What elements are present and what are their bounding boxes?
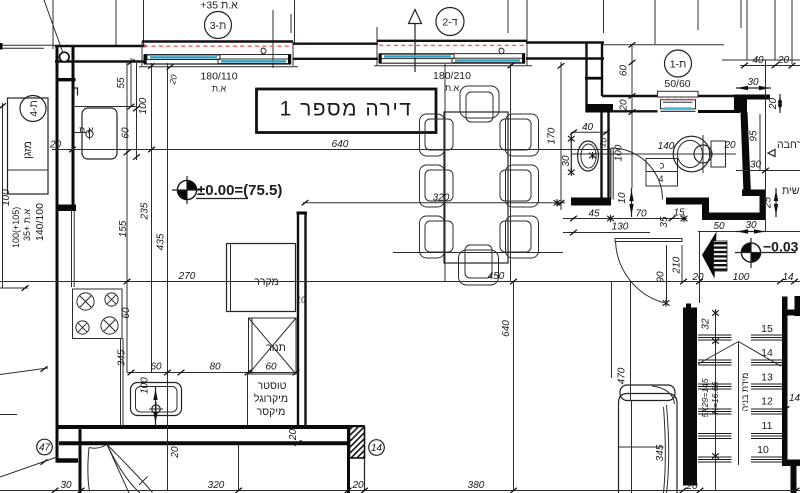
svg-text:4: 4 <box>658 174 663 184</box>
stair tread 15 <box>698 335 783 340</box>
dim 100 entry <box>733 272 750 283</box>
chair south <box>459 245 499 285</box>
svg-text:450: 450 <box>488 271 505 282</box>
svg-text:25: 25 <box>763 197 774 210</box>
dim line y65 right <box>740 63 800 68</box>
svg-text:235: 235 <box>140 202 151 220</box>
svg-text:מזגן: מזגן <box>22 141 34 159</box>
dim 30 bath sink vertical <box>561 135 575 176</box>
svg-text:32: 32 <box>701 318 712 330</box>
dim 100 bath door <box>614 144 625 161</box>
wall west crossbar lower <box>56 205 77 212</box>
svg-text:70: 70 <box>635 209 647 220</box>
svg-text:20: 20 <box>768 98 779 111</box>
grid line vertical x527 <box>526 0 528 44</box>
svg-text:140/100: 140/100 <box>34 203 46 241</box>
balcony door swing lines <box>107 445 153 493</box>
window W2 180/210 <box>374 41 532 68</box>
bottom dim line y490 <box>0 488 800 493</box>
dim 95 rotated <box>749 114 761 171</box>
dim line y149 with 640 <box>52 139 610 152</box>
dim line y202 with 320 <box>302 193 565 207</box>
stair label 5X29 <box>700 378 720 417</box>
svg-text:95: 95 <box>749 130 760 142</box>
stair tread 12 <box>698 409 783 414</box>
bath sink basin <box>578 141 599 171</box>
toilet <box>673 135 725 173</box>
grid line vertical x116 <box>115 0 117 46</box>
svg-text:180/110: 180/110 <box>200 71 237 83</box>
svg-text:130: 130 <box>612 222 629 233</box>
label 140/100 <box>34 203 46 241</box>
dim 10 bath west <box>597 137 609 148</box>
chair west 3 <box>420 216 454 258</box>
svg-text:20: 20 <box>723 140 736 151</box>
dim 470 rotated <box>612 282 628 384</box>
svg-text:±0.00=(75.5): ±0.00=(75.5) <box>197 182 282 199</box>
wall bath south step <box>702 204 709 214</box>
dim line y60 right <box>722 59 800 61</box>
svg-text:90: 90 <box>656 271 667 283</box>
svg-text:+35 א.ת: +35 א.ת <box>200 0 238 12</box>
dim 70 <box>635 209 647 220</box>
svg-text:180/210: 180/210 <box>433 70 471 82</box>
svg-text:320: 320 <box>208 480 225 491</box>
bubble 47 <box>37 439 53 455</box>
label appliances <box>254 380 288 418</box>
svg-text:40: 40 <box>752 55 764 66</box>
dim 55 <box>116 77 127 89</box>
dim 450 <box>488 271 505 282</box>
vertical dim x630 <box>630 282 632 401</box>
dim 25 bold right <box>763 188 779 217</box>
dim 14 stair <box>783 393 800 412</box>
svg-text:10: 10 <box>597 137 609 148</box>
grid line vertical x603 <box>603 0 605 33</box>
window W1 180/110 <box>139 42 298 70</box>
stair tread 10 <box>698 457 783 462</box>
vertical dim x632 <box>619 45 636 188</box>
stair dim line 32 <box>701 309 719 490</box>
chair east 1 <box>500 114 539 156</box>
diagonal bottom-left <box>0 457 57 477</box>
svg-text:100: 100 <box>140 377 151 394</box>
vertical dim x131 <box>75 58 136 109</box>
wall kitchen partition <box>297 212 308 426</box>
svg-text:140: 140 <box>658 141 675 152</box>
stair tread 14 <box>698 360 783 365</box>
top-left horizontal line y46 <box>0 43 55 50</box>
wall west crossbar upper <box>56 78 76 81</box>
sofa body <box>619 394 678 493</box>
grid line vertical x53 <box>52 0 54 49</box>
label 100 left edge <box>1 189 12 206</box>
grid line vertical x792 <box>791 0 793 64</box>
dim line y252 <box>393 252 563 254</box>
svg-text:80: 80 <box>209 362 221 373</box>
dim 100 left <box>138 97 149 114</box>
vertical dim x238 <box>238 445 240 491</box>
svg-text:345: 345 <box>655 444 666 461</box>
svg-text:10: 10 <box>617 192 628 204</box>
kitchen tall cabinet front lines <box>72 211 75 287</box>
svg-text:640: 640 <box>332 139 349 150</box>
dim line y154 bath <box>571 153 736 155</box>
dim 40 top right <box>752 55 764 66</box>
dining table <box>444 112 508 263</box>
svg-text:3-ת: 3-ת <box>210 20 227 32</box>
svg-text:345: 345 <box>117 349 128 366</box>
dim 345 sofa <box>655 444 666 461</box>
vertical dim x127 <box>124 63 131 373</box>
svg-text:מיקסר: מיקסר <box>257 406 286 418</box>
line y414 left <box>0 414 17 416</box>
dim 210 rotated <box>672 245 683 282</box>
svg-text:13: 13 <box>761 372 773 384</box>
svg-text:20: 20 <box>777 55 790 66</box>
svg-text:14: 14 <box>371 443 383 454</box>
svg-text:47: 47 <box>39 443 51 454</box>
svg-text:30: 30 <box>747 77 759 88</box>
dim 20 bath east <box>723 140 736 151</box>
benchmark level 0.00 <box>172 176 282 204</box>
dim 15 <box>673 208 685 219</box>
vertical dim x513 with 640 <box>501 282 514 491</box>
dim 30 bold top right <box>736 77 771 90</box>
kitchen counter edge <box>121 339 124 426</box>
fixture recessed unit top-left <box>82 108 117 159</box>
bubble 1-T <box>665 50 692 77</box>
svg-text:20: 20 <box>351 480 364 491</box>
dim 20 kitchen wall <box>49 140 76 153</box>
svg-text:כ: כ <box>660 161 665 171</box>
svg-text:10: 10 <box>296 295 306 305</box>
wall NE corner vertical <box>585 43 603 113</box>
grid line vertical x741 <box>740 0 742 28</box>
wall bath SE vertical <box>760 196 767 214</box>
dim 30 bold lower <box>736 220 766 234</box>
sofa edge curves <box>664 405 669 493</box>
svg-text:30: 30 <box>745 220 757 231</box>
benchmark level -0.03 <box>735 238 799 268</box>
dim 155 <box>118 220 129 237</box>
wall east poche slanted <box>741 112 752 194</box>
vertical dim x561 with 170 <box>547 62 565 210</box>
dim 10 entry <box>617 188 634 217</box>
sink bold dim <box>153 387 157 425</box>
svg-text:40: 40 <box>582 122 594 133</box>
label A.T +35 <box>22 209 32 241</box>
label 100+105 <box>11 207 21 248</box>
svg-text:א.ת: א.ת <box>212 84 227 94</box>
line y293 left <box>0 285 28 290</box>
svg-text:מיקרוגל: מיקרוגל <box>254 393 288 405</box>
label 50/60 <box>664 78 690 90</box>
dim 50 <box>698 221 800 232</box>
label mashit <box>782 185 800 197</box>
wall bath south w2 <box>702 213 766 221</box>
symbol vent A.T. <box>74 125 94 140</box>
line y170 right <box>736 170 800 172</box>
svg-text:100: 100 <box>138 97 149 114</box>
svg-text:15: 15 <box>673 208 685 219</box>
dim 40 bath sink <box>570 122 610 135</box>
bath cabinet <box>646 159 678 187</box>
dim 14 right <box>777 272 798 284</box>
title box apartment 1 <box>257 89 437 133</box>
svg-text:2-ד: 2-ד <box>442 17 457 29</box>
stair arrow head <box>702 232 717 279</box>
bubble 4-T <box>20 96 46 122</box>
vertical dim x136 <box>133 63 140 160</box>
cabinet step corner <box>74 88 78 96</box>
grid line vertical x291 <box>290 14 292 33</box>
svg-text:14: 14 <box>789 393 800 404</box>
stove cooktop <box>73 289 123 339</box>
grid line vertical x377 <box>376 27 378 44</box>
dim 320 bottom <box>208 480 225 491</box>
dim 345 kitchen <box>117 349 128 366</box>
stair numbers <box>757 323 773 456</box>
svg-text:1-ת: 1-ת <box>670 59 687 71</box>
wall bath north band east <box>698 96 740 112</box>
dim 20 at window1 sill <box>167 73 179 86</box>
sofa back cushion <box>620 385 675 404</box>
wall NE black corner <box>734 95 747 113</box>
svg-text:הרחבה: הרחבה <box>777 139 800 151</box>
grid line vertical x143 <box>143 0 145 46</box>
kitchen sink <box>131 383 182 417</box>
dim 20 bottom <box>351 480 364 491</box>
dim 20 bottom wall <box>288 429 301 446</box>
svg-text:270: 270 <box>178 271 196 282</box>
svg-text:60: 60 <box>121 127 132 139</box>
dim 380 bottom <box>468 480 485 491</box>
wall west outer line <box>56 46 59 462</box>
vertical dim x445 <box>444 64 446 282</box>
dim 60 left <box>121 127 132 139</box>
dim line y372 kitchen <box>127 370 299 375</box>
svg-text:12: 12 <box>761 396 773 408</box>
svg-text:155: 155 <box>118 220 129 237</box>
svg-text:תנור: תנור <box>266 342 286 354</box>
grid line vertical x775 <box>774 0 776 60</box>
svg-text:30: 30 <box>750 160 762 171</box>
svg-text:55: 55 <box>116 77 127 89</box>
grid line vertical x508 <box>507 0 509 33</box>
window W3 50/60 <box>658 91 699 111</box>
stair break diagonals <box>698 342 781 466</box>
chair north <box>460 86 499 122</box>
svg-text:14: 14 <box>761 347 773 359</box>
grid line vertical x747 <box>746 0 748 60</box>
grid line vertical x655 <box>654 0 656 44</box>
entry door swing <box>616 241 670 307</box>
dim 35 rotated <box>659 216 670 228</box>
svg-text:−0.03: −0.03 <box>763 239 799 255</box>
dim 10 on partition <box>296 295 306 305</box>
dim 30 bottom <box>60 480 72 491</box>
wall west inner line <box>72 46 75 205</box>
svg-text:435: 435 <box>156 233 167 250</box>
wall top segment M <box>293 44 378 59</box>
svg-text:דירה מספר 1: דירה מספר 1 <box>280 98 413 121</box>
svg-text:30: 30 <box>561 155 572 167</box>
fridge <box>227 244 296 312</box>
wall alcove south <box>571 198 611 206</box>
wall niche top bar <box>736 95 770 100</box>
dim 270 <box>178 271 196 282</box>
grid line vertical x273 <box>272 10 274 68</box>
vertical dim x766 <box>762 60 769 231</box>
chair east 2 <box>500 165 539 207</box>
svg-text:15: 15 <box>761 323 773 335</box>
wall bath north band west <box>586 96 658 113</box>
dim line y281 long <box>0 279 800 284</box>
wall top segment L <box>55 46 146 62</box>
vertical dim x510 <box>510 64 512 282</box>
svg-text:20: 20 <box>170 446 181 459</box>
dim 45 <box>588 209 600 220</box>
dim 435 <box>156 233 167 250</box>
wall top segment R <box>526 43 604 59</box>
svg-text:30: 30 <box>60 480 72 491</box>
dim 140 bath <box>658 141 675 152</box>
dim 100 sink <box>140 377 151 394</box>
left edge dim line <box>0 103 6 288</box>
svg-text:10: 10 <box>757 444 769 456</box>
stair arrow tail striped <box>714 241 728 271</box>
label 180/110 <box>200 71 237 94</box>
diagonal leader mid-left <box>0 366 48 374</box>
wall bottom band A <box>56 425 365 429</box>
svg-text:60: 60 <box>121 307 132 319</box>
svg-text:170: 170 <box>547 127 558 144</box>
label 180/210 <box>433 70 471 93</box>
wall stair east <box>782 296 800 493</box>
chair east 3 <box>500 216 539 258</box>
wall bath south w1 <box>666 198 709 205</box>
bath door leaf <box>611 148 613 200</box>
dim line y218 <box>563 215 687 222</box>
svg-text:100: 100 <box>614 144 625 161</box>
appliance shelf cell line <box>247 374 249 425</box>
svg-text:45: 45 <box>588 209 600 220</box>
chair west 1 <box>420 114 454 156</box>
wall bottom left corner <box>56 427 81 493</box>
svg-text:4-ת: 4-ת <box>28 100 40 117</box>
svg-text:60: 60 <box>150 362 162 373</box>
svg-text:טוסטר: טוסטר <box>258 380 287 392</box>
leader diagonal to wall circle <box>44 0 63 53</box>
stair label midat bniya <box>740 373 750 412</box>
wall pier right of kitchen <box>347 425 350 493</box>
svg-text:320: 320 <box>433 193 450 204</box>
svg-text:380: 380 <box>468 480 485 491</box>
svg-text:50/60: 50/60 <box>664 78 690 90</box>
stair tread 11 <box>698 434 783 439</box>
svg-text:משית: משית <box>782 185 800 197</box>
hatched pier <box>350 427 365 491</box>
dim 20 bold right vertical <box>768 94 782 113</box>
dim 20 stair bottom <box>680 481 704 493</box>
svg-text:מידת בניה: מידת בניה <box>740 373 750 412</box>
svg-text:20: 20 <box>49 140 62 151</box>
svg-text:60: 60 <box>265 362 277 373</box>
bubble 2-D <box>436 8 464 36</box>
svg-text:470: 470 <box>617 367 628 384</box>
vertical dim x167 <box>168 63 182 491</box>
AC unit box <box>8 98 49 194</box>
dim 20 top right <box>777 55 790 66</box>
north arrow line x415 <box>409 10 422 73</box>
vertical dim x151 <box>148 63 155 373</box>
bubble 14 <box>369 440 385 456</box>
svg-text:20: 20 <box>619 99 630 112</box>
svg-text:א.ת +35: א.ת +35 <box>22 209 32 241</box>
dim 90 rotated <box>656 245 667 303</box>
svg-text:50: 50 <box>713 221 725 232</box>
wall bath west double <box>602 113 609 199</box>
label +35 window1 <box>200 0 238 12</box>
dim 130 <box>563 222 650 236</box>
dim 30 right mid <box>750 160 762 171</box>
svg-text:11: 11 <box>762 420 773 432</box>
svg-text:100: 100 <box>1 189 12 206</box>
svg-text:20: 20 <box>288 429 299 442</box>
dim 20 entry east <box>692 231 705 303</box>
svg-text:60: 60 <box>619 65 630 77</box>
chair west 2 <box>420 165 454 207</box>
svg-text:35: 35 <box>659 216 670 228</box>
grid line vertical x698 <box>697 0 699 30</box>
stair tread 13 <box>698 384 783 389</box>
svg-text:100(+105): 100(+105) <box>11 207 21 248</box>
dim 235 <box>140 202 151 220</box>
wall stair west <box>683 304 697 486</box>
label harhava <box>768 139 800 157</box>
oven <box>249 318 297 374</box>
svg-text:640: 640 <box>501 320 512 337</box>
dim 60 stove <box>121 307 132 319</box>
balcony door leaf edge <box>88 445 107 492</box>
wall bottom band B <box>59 441 348 445</box>
svg-text:210: 210 <box>672 256 683 274</box>
bath door swing <box>611 148 663 200</box>
entry door leaf <box>615 239 682 242</box>
dim 60 80 60 <box>150 362 277 373</box>
bubble 3-T <box>205 12 232 39</box>
wall bath SE horizontal <box>742 190 766 197</box>
grid line vertical x294 <box>294 0 296 44</box>
svg-text:א.ת: א.ת <box>445 83 460 93</box>
dim line y44 right <box>603 42 724 47</box>
